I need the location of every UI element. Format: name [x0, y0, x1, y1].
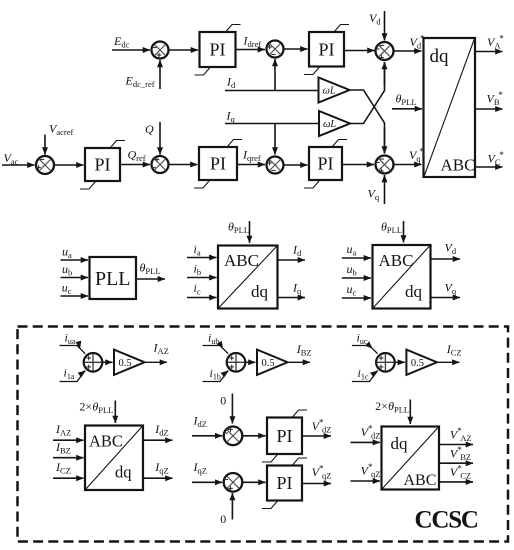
- svg-text:dq: dq: [430, 46, 450, 67]
- svg-text:dq: dq: [115, 463, 132, 482]
- svg-text:PI: PI: [317, 154, 333, 174]
- svg-text:PI: PI: [209, 40, 225, 60]
- svg-text:ABC: ABC: [441, 156, 476, 175]
- svg-text:ABC: ABC: [379, 251, 414, 270]
- svg-text:dq: dq: [405, 282, 423, 301]
- svg-text:0: 0: [220, 512, 226, 526]
- svg-text:CCSC: CCSC: [415, 507, 478, 534]
- svg-text:PI: PI: [276, 473, 292, 493]
- svg-text:0: 0: [220, 394, 226, 408]
- svg-text:2×: 2×: [79, 400, 92, 414]
- svg-text:2×: 2×: [375, 399, 388, 413]
- svg-text:PI: PI: [318, 39, 334, 59]
- svg-text:PI: PI: [94, 155, 110, 175]
- svg-text:ABC: ABC: [404, 472, 437, 489]
- svg-text:ABC: ABC: [224, 251, 259, 270]
- svg-text:PLL: PLL: [95, 268, 131, 290]
- svg-text:dq: dq: [391, 434, 409, 453]
- svg-text:0.5: 0.5: [411, 358, 424, 369]
- svg-text:ωL: ωL: [323, 119, 336, 130]
- svg-text:PI: PI: [210, 154, 226, 174]
- svg-text:0.5: 0.5: [262, 358, 275, 369]
- svg-text:ωL: ωL: [323, 86, 336, 97]
- svg-text:PI: PI: [276, 426, 292, 446]
- svg-text:Q: Q: [145, 122, 154, 136]
- svg-text:dq: dq: [251, 282, 269, 301]
- svg-text:ABC: ABC: [89, 432, 123, 451]
- svg-text:0.5: 0.5: [119, 358, 132, 369]
